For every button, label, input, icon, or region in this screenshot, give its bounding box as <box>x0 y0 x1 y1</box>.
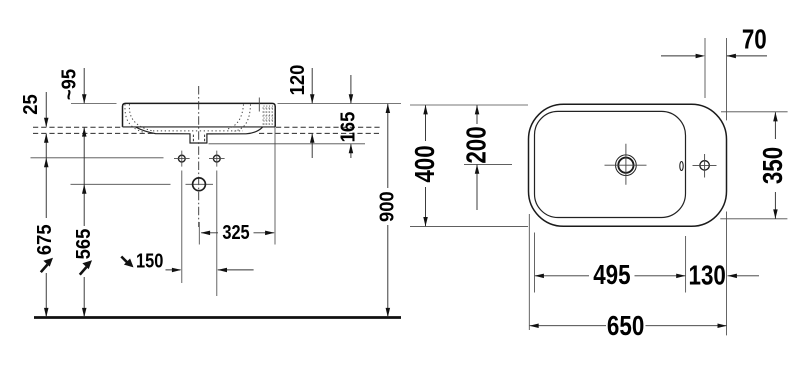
fixing hole left circle <box>178 155 185 162</box>
overflow circle <box>193 178 206 191</box>
dimension 400 <box>425 105 427 226</box>
faucet position tick <box>258 98 260 112</box>
dimension 130 <box>728 275 760 277</box>
counter bottom dashed line <box>33 132 381 134</box>
extension line overflow level <box>71 183 171 185</box>
svg-text:325: 325 <box>222 220 249 243</box>
dimension 900 <box>387 104 389 317</box>
extension line 350 bottom <box>720 218 787 220</box>
stipple curve right wall a <box>227 104 244 129</box>
dimension 650 <box>530 325 727 327</box>
dimension 120 <box>311 68 313 158</box>
extension line drain bottom <box>209 143 366 145</box>
basin rim bottom edge <box>123 126 276 128</box>
extension line below fixing hole left <box>181 171 183 284</box>
crosshair fixing hole left <box>174 151 190 167</box>
svg-text:150: 150 <box>136 249 163 272</box>
svg-text:650: 650 <box>607 311 644 342</box>
stipple curve left wall outer <box>125 104 144 132</box>
extension line basin top right <box>278 103 402 105</box>
svg-text:350: 350 <box>758 147 789 184</box>
leader arrow 150 <box>121 257 128 264</box>
extension line faucet center top <box>704 38 706 98</box>
basin inner bowl outline <box>535 111 686 217</box>
stipple curve right wall b <box>235 104 251 131</box>
svg-text:200: 200 <box>461 126 492 163</box>
svg-text:900: 900 <box>377 191 399 222</box>
svg-text:675: 675 <box>34 224 56 255</box>
svg-text:565: 565 <box>73 228 95 259</box>
dimension 200 <box>476 105 478 210</box>
dimension 565 <box>83 68 85 317</box>
dimension 25 <box>45 92 47 317</box>
dimension 350 <box>774 112 776 219</box>
drain hole hidden lines <box>193 135 204 143</box>
extension line center for 325 <box>198 222 200 245</box>
svg-text:495: 495 <box>593 260 630 291</box>
crosshair fixing hole right <box>209 151 225 167</box>
dimension 165 <box>350 75 352 158</box>
svg-text:400: 400 <box>410 145 441 182</box>
basin bowl underside <box>136 127 263 143</box>
dimension 325 <box>201 232 274 234</box>
extension line basin right edge <box>274 127 276 245</box>
svg-text:25: 25 <box>21 94 43 115</box>
extension line bowl left <box>534 233 536 293</box>
overflow slot <box>680 162 683 171</box>
extension line bowl right <box>685 236 687 293</box>
dimension 495 <box>535 275 685 277</box>
basin outer outline <box>529 104 727 226</box>
extension line drain level <box>464 163 512 165</box>
extension line basin left bottom <box>528 214 530 330</box>
svg-text:165: 165 <box>338 111 360 142</box>
floor line <box>34 316 401 319</box>
extension line basin top left <box>410 104 528 106</box>
svg-text:70: 70 <box>742 24 767 55</box>
dimension 675 arrows <box>44 158 49 167</box>
counter top dashed line <box>33 126 381 128</box>
crosshair overflow circle <box>186 183 214 185</box>
extension line 350 top <box>721 111 788 113</box>
extension line below fixing hole right <box>216 171 218 297</box>
svg-text:120: 120 <box>287 65 309 96</box>
center line <box>198 86 200 227</box>
fixing hole right circle <box>213 155 220 162</box>
basin outline <box>123 103 276 127</box>
extension line basin bottom left <box>410 225 528 227</box>
drain crosshair <box>605 144 647 185</box>
stipple curve left wall inner <box>129 104 152 131</box>
extension line fixing holes level <box>31 157 164 159</box>
drain inner circle <box>618 158 633 173</box>
dimension 70 <box>661 55 767 57</box>
extension line basin right top <box>726 38 728 120</box>
leader arrow 565 <box>80 267 87 275</box>
extension line basin top left <box>71 103 117 105</box>
drain outer circle <box>616 155 637 176</box>
leader arrow 675 <box>41 265 48 273</box>
stipple block right deck <box>263 106 275 126</box>
svg-text:~95: ~95 <box>59 69 81 100</box>
stipple line bowl bottom <box>153 130 243 132</box>
extension line basin right bottom <box>726 212 728 336</box>
faucet crosshair <box>693 154 717 178</box>
dimension 150 <box>166 269 254 271</box>
svg-text:130: 130 <box>689 260 726 291</box>
faucet hole circle <box>700 161 709 170</box>
